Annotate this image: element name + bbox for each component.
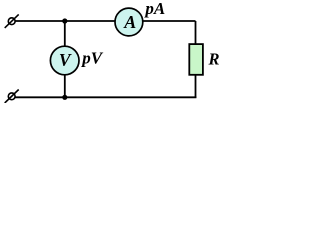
resistor R — [189, 44, 203, 75]
svg-text:pV: pV — [80, 49, 104, 68]
svg-text:R: R — [208, 50, 220, 69]
wire top rail — [15, 20, 196, 22]
svg-text:V: V — [59, 50, 72, 70]
wire bottom rail — [15, 96, 196, 98]
terminal bottom-left — [5, 90, 19, 104]
node junction bottom — [62, 95, 67, 100]
svg-text:pA: pA — [143, 0, 165, 18]
wire voltmeter branch — [64, 21, 66, 97]
ammeter pA — [115, 8, 143, 36]
wire right vertical — [195, 21, 197, 98]
svg-text:A: A — [123, 12, 136, 32]
node junction top — [62, 18, 67, 23]
voltmeter pV — [50, 46, 79, 75]
terminal top-left — [5, 14, 19, 28]
